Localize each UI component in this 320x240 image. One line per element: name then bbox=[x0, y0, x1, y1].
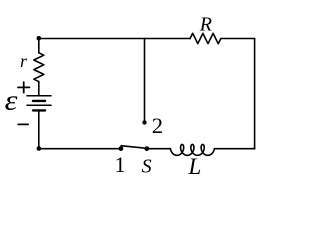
node switch contact 2 bbox=[142, 120, 146, 124]
wire resistor r to battery bbox=[38, 82, 40, 96]
svg-text:1: 1 bbox=[115, 152, 126, 177]
wire switch to inductor bbox=[147, 148, 171, 150]
wire top from node to resistor R bbox=[39, 38, 190, 40]
wire inductor to right corner bbox=[214, 148, 254, 150]
wire top right bbox=[221, 38, 255, 40]
wire bottom left bbox=[39, 148, 121, 150]
battery minus sign bbox=[18, 123, 28, 125]
svg-text:ε: ε bbox=[5, 84, 19, 116]
battery plate short bbox=[33, 100, 45, 102]
svg-text:R: R bbox=[199, 13, 212, 35]
node top left junction bbox=[37, 36, 42, 41]
svg-text:r: r bbox=[20, 51, 28, 71]
battery plate long bbox=[27, 104, 51, 106]
wire middle vertical to contact 2 bbox=[144, 39, 146, 123]
node bottom left junction bbox=[37, 146, 42, 151]
battery plus sign bbox=[18, 86, 30, 88]
wire right side bbox=[254, 39, 256, 149]
resistor R1 zigzag bbox=[190, 33, 221, 43]
node switch contact 1 bbox=[119, 146, 124, 151]
wire battery to bottom node bbox=[38, 110, 40, 148]
wire left top segment bbox=[38, 39, 40, 53]
battery plate long top bbox=[27, 95, 51, 97]
svg-text:S: S bbox=[142, 156, 152, 178]
svg-text:L: L bbox=[188, 154, 202, 179]
switch S blade bbox=[121, 146, 147, 149]
battery plate short bottom bbox=[33, 109, 45, 111]
node switch pivot S bbox=[144, 146, 149, 151]
resistor r zigzag bbox=[34, 53, 44, 82]
svg-text:2: 2 bbox=[152, 113, 163, 138]
inductor L coil bbox=[170, 144, 214, 155]
